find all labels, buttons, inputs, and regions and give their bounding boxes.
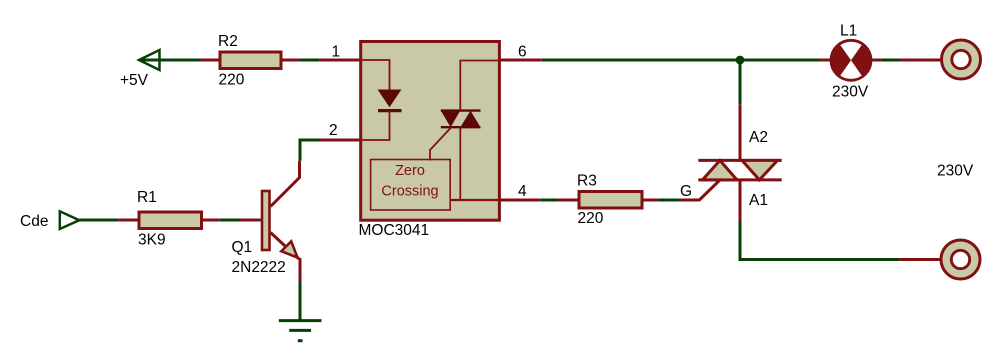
wire R3 to triac gate [658,199,679,202]
MOC3041 internal gate wire to zero crossing [430,128,451,161]
svg-text:230V: 230V [832,84,869,101]
wire junction down to triac A2 [739,60,742,104]
wire pin 6 to lamp (top rail) [542,59,819,62]
svg-text:220: 220 [578,210,604,227]
input terminal Cde arrow [60,211,80,229]
MOC3041 internal triac bottom bar [441,126,481,128]
triac bottom bar [698,178,781,181]
svg-text:G: G [680,183,692,200]
wire pin 4 to R3 [540,199,557,202]
optocoupler U1 MOC3041 body [361,42,500,221]
MOC3041 zero crossing box [371,160,451,211]
svg-text:2N2222: 2N2222 [232,259,286,276]
wire R2 to pin 1 [300,59,319,62]
svg-text:230V: 230V [937,163,974,180]
transistor Q1 collector pin [271,161,300,207]
svg-text:Cde: Cde [20,213,48,230]
triac top bar [698,159,781,162]
terminal J1 connector [942,40,981,79]
pin 4 stub [500,199,540,202]
wire Cde to R1 [79,219,118,222]
wire +5V to R2 [139,59,200,62]
MOC3041 internal triac top bar [441,109,481,111]
svg-text:Zero: Zero [395,163,425,179]
svg-text:3K9: 3K9 [138,232,166,249]
resistor R1 right pin [202,219,220,222]
wire triac A1 down to terminal [740,221,899,260]
resistor R2 right pin [281,59,300,62]
svg-text:Q1: Q1 [232,239,253,256]
power terminal +5V arrow [139,50,160,70]
junction node at triac A2 [736,56,745,65]
MOC3041 internal LED wiring [362,60,390,91]
svg-text:R2: R2 [218,33,238,50]
triac gate pin [680,180,720,200]
pin 2 stub [320,139,362,142]
transistor Q1 emitter pin [271,233,300,260]
MOC3041 internal LED cathode bar [378,109,402,112]
MOC3041 internal triac right triangle [460,111,480,128]
wire R1 to Q1 base [220,219,240,222]
svg-text:220: 220 [219,72,245,89]
lamp L1 left pin [819,59,831,62]
MOC3041 internal triac top wire from pin 6 [460,61,500,111]
lamp L1 body [831,40,871,80]
terminal J1 pin [900,59,940,62]
resistor R2 [220,52,281,69]
resistor R3 right pin [642,199,658,202]
svg-text:2: 2 [329,122,338,139]
svg-text:4: 4 [518,183,527,200]
svg-text:L1: L1 [840,23,857,40]
ground symbol [279,321,322,341]
wire emitter to ground [299,282,302,320]
triac A2 pin [739,104,742,160]
svg-text:1: 1 [332,44,341,61]
triac right triangle [742,160,778,180]
transistor Q1 base pin [240,219,261,222]
svg-text:Crossing: Crossing [381,183,438,199]
wire lamp to terminal [881,59,900,62]
triac A1 pin [739,180,742,221]
terminal J2 connector [941,240,980,279]
svg-text:A2: A2 [749,129,768,146]
svg-text:A1: A1 [749,192,768,209]
svg-text:+5V: +5V [120,72,149,89]
MOC3041 internal pin 4 wire [451,199,500,201]
svg-text:MOC3041: MOC3041 [359,222,430,239]
MOC3041 internal triac left triangle [441,111,461,128]
svg-text:6: 6 [518,44,527,61]
pin 1 stub [319,59,362,62]
terminal J2 pin [899,258,940,261]
svg-text:R1: R1 [137,189,157,206]
MOC3041 internal triac bottom wire to pin 4 [459,127,461,200]
resistor R2 left pin [200,59,220,62]
MOC3041 internal LED to pin 2 [362,111,390,140]
MOC3041 internal LED diode [379,90,401,106]
pin 6 stub [500,59,542,62]
resistor R3 [579,192,642,209]
wire pin 2 to Q1 collector [300,140,320,161]
resistor R1 [139,212,202,229]
lamp L1 right pin [872,59,882,62]
transistor Q1 base bar [262,191,270,250]
resistor R1 left pin [118,219,139,222]
resistor R3 left pin [557,199,579,202]
svg-text:R3: R3 [577,173,597,190]
transistor Q1 emitter stub to ground [299,258,302,282]
triac left triangle [703,160,738,180]
transistor Q1 emitter arrow [281,241,297,257]
